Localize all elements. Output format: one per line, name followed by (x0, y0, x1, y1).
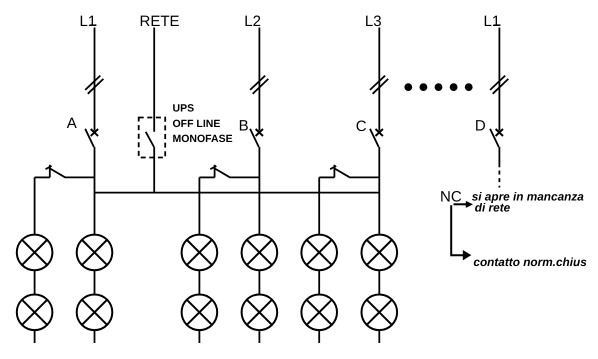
wire L2 down to switch B (258, 28, 260, 131)
wire column 3 down to lamps (198, 177, 200, 343)
switch D contact x mark (496, 129, 503, 136)
wire below switch A to lamp column 2 (94, 147, 96, 343)
svg-text:L2: L2 (244, 13, 261, 30)
aux contact 5 fixed stub (333, 165, 335, 178)
breaker double-slash on L1 right wire (490, 76, 508, 94)
bus wire (95, 192, 380, 194)
lamp column 1 bottom (17, 295, 53, 331)
lamp column 4 top (242, 235, 278, 271)
wire below switch B to lamp column 4 (258, 147, 260, 343)
aux contact 1 blade (50, 169, 65, 178)
svg-text:B: B (239, 118, 249, 135)
UPS internal switch blade (146, 132, 154, 147)
ellipsis dots between L3 and L1 (404, 83, 472, 91)
svg-text:NC: NC (440, 188, 462, 205)
svg-text:UPS: UPS (173, 102, 195, 114)
lamp column 6 top (362, 235, 398, 271)
aux contact 1 tick (46, 166, 52, 169)
lamp column 2 top (77, 235, 113, 271)
aux contact for column 5 : left wire (319, 176, 334, 178)
lamp column 6 bottom (362, 295, 398, 331)
wire L1 down to switch A (94, 28, 96, 131)
aux contact 1 right wire to A branch (65, 176, 95, 178)
svg-text:di rete: di rete (475, 201, 511, 215)
wire L1 right down to switch D (498, 28, 500, 131)
lamp column 3 bottom (182, 295, 218, 331)
svg-text:contatto norm.chiuso: contatto norm.chiuso (473, 255, 594, 269)
wire column 1 down to lamps (34, 177, 36, 343)
lamp column 4 bottom (242, 295, 278, 331)
wire below UPS to bus (153, 147, 155, 193)
wire RETE down into UPS (153, 28, 155, 132)
aux contact 5 right wire to C branch (349, 176, 379, 178)
arrowhead of leader line (463, 250, 472, 260)
arrow from NC to note (opens on mains failure) (454, 201, 474, 208)
breaker double-slash on L3 wire (370, 76, 388, 94)
leader line from NC down to contact note (451, 205, 463, 255)
dashed wire from switch D toward NC (498, 171, 500, 188)
svg-text:L1: L1 (484, 13, 501, 30)
lamp column 2 bottom (77, 295, 113, 331)
breaker double-slash on L2 wire (250, 76, 268, 94)
lamp column 1 top (17, 235, 53, 271)
aux contact 5 blade (335, 169, 350, 178)
UPS dashed enclosure (139, 118, 166, 158)
aux contact 3 blade (215, 169, 230, 178)
wire below switch D (498, 147, 500, 167)
switch D blade (490, 129, 499, 147)
wire column 5 down to lamps (318, 177, 320, 343)
aux contact 1 fixed stub (49, 165, 51, 178)
aux contact 3 right wire to B branch (229, 176, 259, 178)
aux contact 3 fixed stub (214, 165, 216, 178)
svg-text:L1: L1 (80, 13, 97, 30)
svg-text:A: A (67, 115, 77, 132)
wire L3 down to switch C (378, 28, 380, 131)
switch A contact x mark (91, 129, 98, 136)
svg-text:MONOFASE: MONOFASE (173, 133, 233, 145)
switch B blade (250, 129, 259, 147)
aux contact for column 1 : left wire (35, 176, 50, 178)
breaker double-slash on L1 wire (85, 76, 103, 94)
aux contact 5 tick (330, 166, 336, 169)
svg-text:L3: L3 (365, 13, 382, 30)
lamp column 3 top (182, 235, 218, 271)
svg-text:C: C (356, 118, 367, 135)
svg-text:RETE: RETE (140, 13, 180, 30)
lamp column 5 top (301, 235, 337, 271)
switch B contact x mark (256, 129, 263, 136)
switch C blade (370, 129, 379, 147)
svg-text:OFF LINE: OFF LINE (173, 118, 221, 130)
aux contact for column 3 : left wire (199, 176, 214, 178)
aux contact 3 tick (210, 166, 216, 169)
svg-text:D: D (475, 118, 486, 135)
switch A blade (85, 129, 94, 147)
lamp column 5 bottom (301, 295, 337, 331)
wire below switch C to lamp column 6 (378, 147, 380, 343)
switch C contact x mark (376, 129, 383, 136)
